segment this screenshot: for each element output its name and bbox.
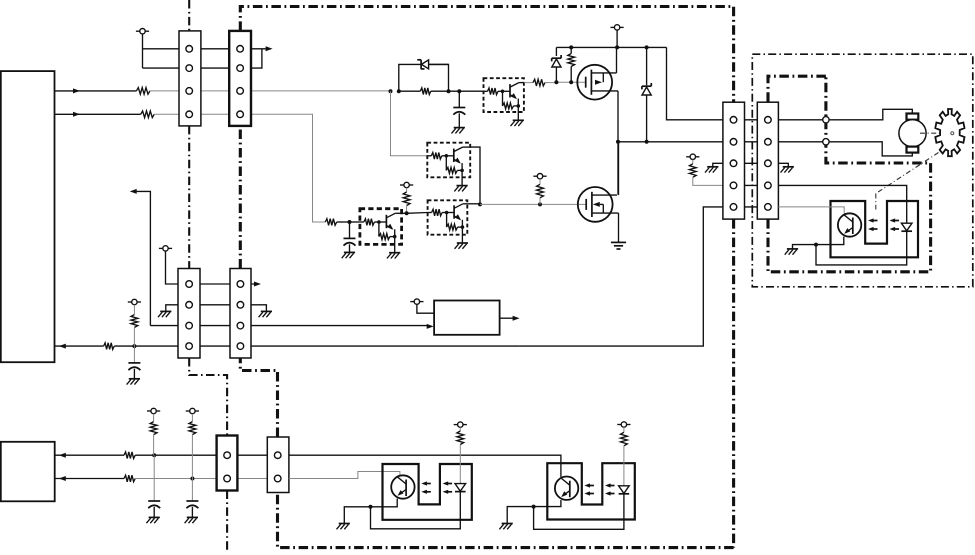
digital transistor Q1 (dashed box) — [484, 78, 524, 126]
light arrows PI2 — [584, 483, 614, 495]
resistor R1 — [136, 88, 150, 95]
wire gate M2 — [480, 202, 586, 206]
wire node A to Q2 — [391, 91, 428, 156]
phototransistor PT1 — [391, 475, 414, 498]
motor shaft axis dash-dot — [920, 132, 949, 134]
terminal T1 — [136, 29, 149, 34]
ground C2 — [342, 252, 355, 258]
wire CN6 row2 to PI1 — [289, 472, 400, 479]
pull-up terminal T8 — [128, 299, 141, 304]
wire M1 drain to output node — [616, 91, 620, 195]
ground M2 (earth) — [611, 242, 626, 249]
wire PI2 ground — [507, 507, 533, 524]
wire row4 from control unit — [55, 112, 141, 117]
LED D1 — [455, 484, 466, 492]
resistor R12 — [124, 475, 135, 482]
wire rail to CN7 pin1 — [667, 47, 723, 119]
wire CN8 pin4 to PI3 LED — [778, 185, 906, 223]
encoder disc link dash line — [876, 153, 939, 210]
wire IC1 output arrow — [500, 316, 520, 321]
ground C1 — [452, 128, 465, 134]
wire CN6 row1 to PI2 — [289, 455, 561, 477]
light arrows PI3 — [868, 218, 899, 231]
ground PI1 — [337, 524, 350, 530]
connector CN6 — [267, 437, 289, 493]
wire output node to CN7 pin2 — [618, 140, 723, 144]
driver board boundary dash-dot (bottom and left) — [240, 127, 733, 548]
wire row2 loop — [143, 49, 262, 68]
wire Q3 collector to gate node — [467, 202, 482, 206]
wire D1 cathode loop — [371, 492, 461, 529]
wire output arrow up-left — [130, 189, 151, 326]
connector CN2 — [229, 31, 251, 126]
ground C5 — [185, 517, 198, 523]
connector CN1 — [179, 31, 201, 126]
wire CN2 row4 resistor — [325, 219, 349, 226]
wire CN3 row3 to IC1 — [150, 324, 433, 329]
wire Q2 collector down — [470, 147, 480, 204]
resistor R10 — [131, 305, 138, 346]
junction under loop left — [397, 89, 451, 93]
sensor PCB boundary bold dash-dot (through CN8) — [768, 76, 931, 272]
digital transistor Q2 (dashed box) — [427, 143, 470, 192]
wire Q4 collector to node D — [402, 212, 428, 215]
wire M2 source to ground — [618, 213, 620, 242]
power terminal T2 — [611, 25, 624, 48]
zener diode ZD3 — [642, 47, 651, 141]
junction PI2 — [532, 505, 536, 509]
zener diode ZD2 — [552, 47, 561, 82]
pull-up terminal T11 — [454, 422, 467, 427]
wire T1 to row1/row2 — [142, 34, 144, 68]
pull-up terminal T3 — [400, 182, 413, 187]
wire row3 to node A — [150, 90, 391, 92]
resistor R2 — [141, 111, 155, 118]
wire node C to Q4 — [350, 221, 360, 223]
photo interrupter PI3 housing — [831, 201, 919, 257]
photo interrupter PI2 housing — [547, 463, 635, 519]
ground CN8 pin3 — [781, 167, 794, 173]
wire node B to Q1 — [459, 90, 483, 92]
junction PI3 — [814, 243, 818, 247]
zener diode ZD1 loop — [399, 60, 449, 91]
ground C4 — [146, 517, 159, 523]
ground CN4 row2 right — [259, 311, 272, 317]
wire CN8 pin5 to PI3 collector — [778, 207, 844, 214]
wire gate M1 — [554, 80, 585, 84]
wire PI1 ground — [344, 507, 370, 524]
resistor R6 — [403, 188, 410, 216]
transistor M1 (P-MOSFET) — [577, 65, 618, 100]
capacitor C4 — [148, 455, 160, 517]
wire row3 from control unit — [55, 88, 137, 93]
resistor R4 — [524, 79, 557, 86]
wire PI1 emitter — [371, 499, 398, 507]
connector CN5 — [217, 436, 238, 491]
capacitor C5 — [186, 479, 198, 518]
wire row B across — [135, 477, 289, 481]
boundary terminal circle row2 — [823, 139, 829, 145]
transistor M2 (N-MOSFET) — [578, 187, 619, 222]
resistor R9 — [104, 343, 115, 350]
LED D2 — [619, 486, 630, 494]
wire D2 cathode loop — [534, 494, 624, 530]
LED D3 — [901, 223, 912, 231]
wire PI3 emitter — [816, 237, 844, 245]
wire CN7 pin3 ground — [713, 163, 723, 167]
wire T7 to IC1 — [417, 304, 434, 313]
wire M2 drain up — [618, 142, 620, 195]
phototransistor PT2 — [555, 477, 578, 500]
resistor R7 — [537, 179, 544, 205]
pull-up terminal T12 — [617, 422, 630, 427]
capacitor C3 — [128, 346, 140, 379]
wire D3 cathode loop — [816, 231, 907, 265]
digital transistor Q3 (dashed box) — [428, 200, 468, 249]
terminal T6 — [159, 246, 172, 251]
motor unit boundary dash-dot box — [752, 54, 973, 287]
wire CN8 pin3 ground — [778, 163, 788, 167]
driver board boundary dash-dot (top and right) — [240, 7, 733, 548]
board boundary dash-dot line (through CN1 CN3 CN5) — [189, 0, 227, 550]
wire row A arrow — [55, 453, 124, 458]
ground CN3 row2 left — [158, 311, 171, 317]
resistor R14 — [189, 414, 196, 479]
terminal T7 — [410, 299, 423, 304]
wire CN8 pin1 to motor — [778, 109, 912, 120]
resistor R3 — [399, 88, 460, 95]
V+ rail — [556, 45, 666, 49]
resistor R11 — [124, 452, 135, 459]
wire M1 source to rail — [616, 47, 618, 73]
wire row4 feedback arrow — [55, 344, 104, 349]
light arrows PI1 — [421, 481, 452, 494]
node A junction — [389, 89, 393, 93]
resistor R16 — [621, 427, 628, 486]
wire PI2 emitter — [534, 500, 561, 507]
pull-up terminal T5 — [686, 154, 699, 159]
node C junction — [348, 220, 352, 224]
gear G1 — [935, 109, 964, 156]
wire row4 across — [114, 344, 519, 348]
resistor R5 — [568, 47, 575, 82]
control unit box — [1, 71, 55, 362]
resistor R15 — [457, 427, 464, 483]
wire CN3 row2 grounds — [166, 305, 267, 311]
junction PI1 — [369, 505, 373, 509]
IC1 box — [434, 301, 500, 335]
photo interrupter PI1 housing — [383, 464, 472, 520]
node B junction — [457, 89, 461, 93]
pull-up terminal T9 — [147, 408, 160, 413]
ground CN7 pin3 — [705, 167, 718, 173]
wire PI3 ground — [793, 245, 817, 249]
digital transistor Q4 (bold dashed box) — [360, 209, 402, 259]
connector CN8 — [757, 102, 778, 219]
capacitor C1 — [453, 91, 465, 127]
wires through CN7 CN8 — [723, 120, 779, 207]
connector CN3 — [178, 269, 200, 359]
boundary terminal circle row1 — [823, 117, 829, 123]
wire row1 with arrow — [143, 46, 273, 51]
pull-up terminal T4 — [533, 174, 546, 179]
resistor R8 — [689, 160, 723, 186]
connector CN7 — [723, 102, 745, 219]
phototransistor PT3 — [838, 213, 861, 236]
resistor R13 — [150, 414, 157, 456]
ground C3 — [127, 379, 140, 385]
wire CN8 pin2 to motor — [778, 142, 912, 156]
capacitor C2 — [344, 222, 356, 252]
wire row A across — [135, 453, 289, 457]
motor MT1 — [899, 114, 926, 153]
wire T6 to CN3 row1 — [166, 251, 262, 286]
pull-up terminal T10 — [186, 408, 199, 413]
ground PI2 — [499, 524, 512, 530]
wire row4 to corner — [154, 114, 325, 222]
connector CN4 — [230, 269, 251, 359]
ground PI3 — [785, 249, 798, 255]
wire row B arrow — [55, 476, 124, 481]
interface unit box — [1, 442, 55, 502]
wire CN7 pin5 feedback — [520, 207, 723, 346]
